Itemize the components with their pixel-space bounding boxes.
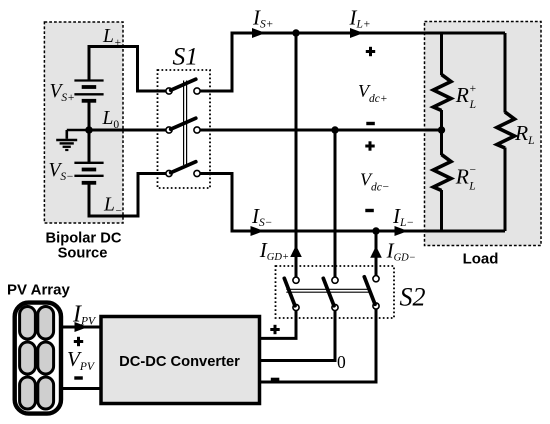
wire VS+ bottom to node L0 to VS- top [88,101,91,163]
S2 switch 1 [284,277,299,311]
wire PV bottom to converter [61,387,101,390]
minus sign converter output [271,378,280,381]
load left branch wire upper [440,33,443,75]
svg-text:Source: Source [58,246,108,262]
svg-text:DC-DC Converter: DC-DC Converter [119,354,240,370]
minus sign PV [74,376,83,379]
S2 switch 2 [323,277,338,311]
wire drop from middle bus to S2 switch 2 [334,130,337,277]
arrow I_L+ [350,28,364,38]
wire S1 middle to load (middle bus) [200,129,441,132]
wire L- from VS- bottom to S1 [89,174,166,217]
load left branch wire middle [440,110,443,155]
plus sign converter output [270,325,279,334]
plus sign above V_dc+ [366,47,375,56]
arrow I_PV [75,322,89,332]
junction on top bus [292,29,299,36]
arrow I_S- [251,226,265,236]
S1 box [158,70,211,188]
ground [56,130,89,150]
minus sign below V_dc- [365,209,374,212]
plus sign PV [74,337,83,346]
battery VS+ [74,81,103,101]
svg-text:Bipolar DC: Bipolar DC [46,230,122,246]
PV cell 6 [38,377,54,409]
svg-text:0: 0 [337,352,346,372]
load bottom wire [442,230,506,233]
wire S2 switch1 to converter + output [260,311,297,339]
wire drop from top bus to S2 switch 1 [295,33,298,277]
bipolar DC source box [44,22,123,223]
S2 gang linkage [286,289,369,292]
S2 switch 3 [364,276,379,310]
wire S1 top to top bus [200,33,505,91]
junction at load centre tap [438,126,445,133]
wire PV top to converter [61,326,101,329]
node L0 junction [85,126,93,134]
wire S2 switch2 to converter 0 output [260,311,336,361]
PV array panel [15,303,61,414]
plus sign above V_dc- [365,141,374,150]
svg-text:S1: S1 [173,41,199,70]
S1 switch bottom [166,162,200,177]
arrow I_GD- [370,246,382,258]
load left branch wire lower [440,190,443,231]
PV cell 5 [20,377,36,409]
svg-text:PV Array: PV Array [7,282,70,299]
wire S2 switch3 to converter - output [260,309,377,382]
S1 switch middle [166,118,200,133]
S1 switch top (contacts and lever) [166,79,200,94]
wire drop from bottom bus to S2 switch 3 [375,231,378,276]
svg-text:Load: Load [463,251,499,268]
junction on bottom bus [372,227,379,234]
arrow I_L- [395,226,409,236]
arrow I_S+ [252,28,266,38]
PV cell 4 [38,342,54,374]
DC-DC converter box [101,317,260,404]
load right branch wire upper [504,33,507,113]
svg-text:S2: S2 [400,283,426,312]
minus sign below V_dc+ [366,122,375,125]
junction on middle bus [331,126,338,133]
wire middle bus L0 to S1 [89,129,166,132]
battery VS- [74,163,103,183]
S1 gang linkage [184,81,187,166]
resistor RL [497,112,515,148]
S2 box [276,266,395,318]
resistor RL+ [433,75,451,111]
PV cell 1 [20,307,36,340]
arrow I_GD+ [290,245,302,257]
PV cell 3 [20,342,36,374]
load right branch wire lower [504,148,507,232]
resistor RL- [433,155,451,191]
wire S1 bottom to bottom bus [200,174,505,232]
wire L+ from VS+ top to S1 [89,47,166,92]
load box [425,22,542,246]
PV cell 2 [38,307,54,340]
